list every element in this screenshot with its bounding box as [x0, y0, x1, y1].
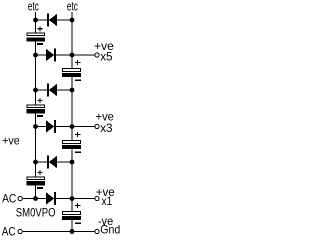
terminal +ve x5 [95, 53, 99, 57]
junction node, right rail row 2 (x5 tap) [70, 53, 75, 58]
svg-text:Gnd: Gnd [100, 223, 120, 237]
junction node, left rail row 6 (AC input) [33, 196, 38, 201]
label etc (left rail top) [28, 0, 39, 13]
svg-text:SM0VPO: SM0VPO [16, 205, 56, 219]
capacitor, right rail bottom / x1 reservoir (electrolytic, + top) [62, 203, 81, 224]
junction node, left rail row 5 [33, 160, 38, 165]
label SM0VPO [16, 205, 56, 219]
wire: left rail segment 2 [35, 41, 37, 105]
wire: row 4 horizontal (to x3 terminal) [36, 126, 95, 128]
label x3 [100, 121, 113, 135]
junction node, left rail row 2 [33, 53, 38, 58]
label Gnd [100, 223, 120, 237]
wire: right rail segment 2 [71, 77, 73, 141]
svg-text:+ve: +ve [2, 134, 20, 148]
junction node, left rail row 1 [33, 18, 38, 23]
junction node, left rail row 4 [33, 124, 38, 129]
junction node, right rail row 3 [70, 88, 75, 93]
wire: left rail segment 4 [35, 185, 37, 199]
svg-text:AC: AC [2, 224, 16, 238]
diode, row 5 (cathode left) [47, 156, 57, 169]
capacitor, left rail middle (electrolytic, + top) [27, 98, 45, 117]
diode, row 1 (cathode left) [47, 14, 57, 27]
junction node, right rail row 1 [70, 18, 75, 23]
junction node, right rail row 5 [70, 160, 75, 165]
wire: row 6 horizontal (AC input to x1 terminal) [23, 198, 95, 200]
label AC (lower input) [2, 224, 16, 238]
terminal +ve x1 [95, 196, 99, 200]
wire: row 3 horizontal [36, 89, 73, 91]
wire: row 5 horizontal [36, 161, 73, 163]
label etc (right rail top) [67, 0, 78, 13]
junction node, right rail row 4 (x3 tap) [70, 124, 75, 129]
label -ve (ground output) [98, 214, 114, 228]
wire: left rail segment 3 [35, 113, 37, 178]
label +ve (x3 output) [96, 110, 114, 124]
svg-text:x3: x3 [100, 121, 113, 135]
terminal AC input (upper) [18, 196, 22, 200]
junction node, right rail bottom (ground rail) [70, 229, 75, 234]
svg-text:x1: x1 [102, 194, 113, 208]
label x1 [102, 194, 113, 208]
capacitor, left rail upper (electrolytic, + top) [27, 26, 45, 45]
diode, row 4 (cathode right) [46, 120, 56, 133]
wire: row 2 horizontal (to x5 terminal) [36, 54, 95, 56]
diode, row 3 (cathode left) [47, 84, 57, 97]
diode, row 6 (cathode right) [46, 192, 56, 205]
label AC (upper input) [2, 191, 16, 205]
junction node, left rail row 3 [33, 88, 38, 93]
label +ve (left rail) [2, 134, 20, 148]
capacitor, left rail lower (electrolytic, + top) [27, 170, 45, 189]
label +ve (x5 output) [94, 39, 114, 53]
capacitor, right rail middle (electrolytic, + top) [62, 132, 81, 153]
svg-text:AC: AC [2, 191, 16, 205]
svg-text:etc: etc [28, 0, 39, 13]
junction node, right rail row 6 (x1 tap) [70, 196, 75, 201]
svg-text:x5: x5 [100, 50, 113, 64]
wire: row 1 horizontal [36, 19, 73, 21]
label +ve (x1 output) [96, 185, 115, 199]
wire: right rail segment 1 [71, 12, 73, 69]
label x5 [100, 50, 113, 64]
terminal -ve Gnd [95, 229, 99, 233]
terminal AC input (lower) [18, 229, 22, 233]
capacitor, right rail upper (electrolytic, + top) [62, 60, 81, 81]
svg-text:etc: etc [67, 0, 78, 13]
wire: bottom horizontal (AC input to Gnd terminal) [23, 231, 95, 233]
terminal +ve x3 [95, 124, 99, 128]
wire: left rail segment 1 [35, 12, 37, 33]
wire: right rail segment 3 [71, 150, 73, 212]
diode, row 2 (cathode right) [46, 49, 56, 62]
wire: right rail segment 4 [71, 220, 73, 232]
